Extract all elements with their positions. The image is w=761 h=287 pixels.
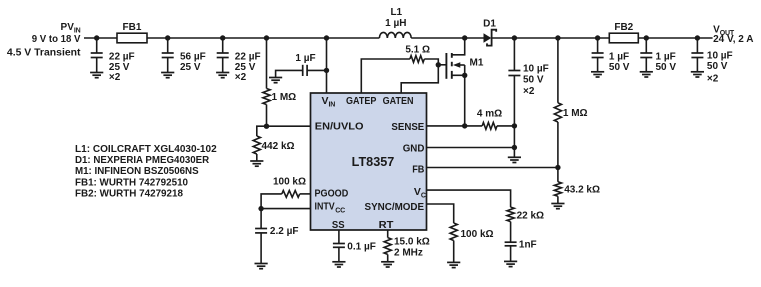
svg-text:EN/UVLO: EN/UVLO [315, 121, 364, 133]
pin FB label [412, 164, 425, 176]
node junction input cap 1 [94, 35, 99, 40]
pin GATEN label [383, 95, 414, 107]
svg-text:FB: FB [412, 164, 425, 176]
resistor R4 4mohm sense [482, 123, 514, 130]
label C3 22uF 25V x2 [235, 51, 261, 82]
wire GATEP riser [361, 59, 410, 93]
svg-text:100 kΩ: 100 kΩ [461, 229, 494, 240]
svg-text:442 kΩ: 442 kΩ [262, 141, 295, 152]
svg-text:10 µF: 10 µF [523, 63, 549, 74]
label R10 22k [517, 211, 544, 222]
svg-text:INTV: INTV [315, 200, 335, 212]
svg-text:50 V: 50 V [523, 75, 544, 86]
ground C9 [255, 264, 268, 269]
svg-text:D1: NEXPERIA PMEG4030ER: D1: NEXPERIA PMEG4030ER [75, 155, 210, 166]
label C8 10uF 50V x2 [707, 50, 733, 84]
wire gate junction to gate [438, 64, 445, 66]
wire EN node to 442k [257, 126, 267, 136]
pin RT label [379, 219, 394, 231]
pin VC label [414, 186, 426, 200]
ground GND pin [508, 157, 521, 162]
capacitor C5 10uF x2 [508, 38, 520, 157]
capacitor C10 0.1uF SS [333, 230, 345, 262]
node junction 1M divider top [264, 35, 269, 40]
svg-text:GATEN: GATEN [383, 95, 414, 107]
capacitor C1 22uF [91, 38, 103, 73]
pin SENSE label [391, 121, 424, 133]
label C9 2.2uF [270, 226, 299, 237]
pin GND label [403, 142, 425, 154]
node junction input cap 3 [220, 35, 225, 40]
svg-text:1 µH: 1 µH [385, 18, 406, 29]
label M1 [470, 58, 484, 69]
svg-text:4 mΩ: 4 mΩ [477, 109, 502, 120]
svg-text:FB2: FB2 [614, 22, 633, 33]
svg-text:1 MΩ: 1 MΩ [563, 108, 588, 119]
svg-text:1 MΩ: 1 MΩ [272, 92, 297, 103]
svg-text:×2: ×2 [523, 86, 535, 97]
node junction output cap 2 [644, 35, 649, 40]
resistor R9 100k SYNC [450, 223, 457, 262]
capacitor C11 1nF VC [505, 242, 517, 261]
svg-text:PGOOD: PGOOD [315, 187, 349, 199]
wire FB1 to inductor L1 [147, 37, 379, 39]
svg-text:SYNC/MODE: SYNC/MODE [365, 201, 425, 213]
svg-text:56 µF: 56 µF [180, 51, 206, 62]
svg-text:100 kΩ: 100 kΩ [273, 177, 306, 188]
resistor R5 1M output divider [554, 38, 561, 168]
resistor R3 5.1R gate [410, 56, 438, 65]
node EN junction [264, 124, 269, 129]
wire bypass cap to VIN [307, 69, 326, 71]
ground C1 [90, 73, 103, 78]
svg-text:9 V to 18 V: 9 V to 18 V [32, 34, 81, 45]
svg-text:GND: GND [403, 142, 425, 154]
transistor M1 NMOS [446, 38, 464, 126]
wire SENSE pin [427, 125, 483, 127]
label C1 22uF 25V x2 [109, 51, 135, 82]
node junction VIN drop [324, 35, 329, 40]
label C4 1uF [295, 53, 315, 64]
label R3 5.1R [405, 44, 430, 55]
pin VIN label [322, 95, 336, 109]
wire SYNC/MODE pin [427, 204, 454, 223]
label C5 10uF 50V x2 [523, 63, 549, 97]
label D1 [483, 19, 496, 30]
label R7 100k [273, 177, 306, 188]
pin PGOOD label [315, 187, 349, 199]
capacitor C6 1uF [592, 38, 604, 72]
ground R2 [250, 161, 263, 166]
svg-text:SS: SS [332, 219, 345, 231]
wire PGOOD pin [300, 193, 311, 195]
svg-text:×2: ×2 [707, 74, 719, 85]
label U1 LT8357 [352, 155, 395, 169]
label R8 15k 2MHz [394, 236, 430, 258]
svg-text:L1: COILCRAFT XGL4030-102: L1: COILCRAFT XGL4030-102 [75, 144, 217, 155]
node GND junction [512, 145, 517, 150]
svg-text:FB1: FB1 [123, 22, 142, 33]
label C6 1uF 50V [609, 51, 630, 73]
wire L1 to D1 [411, 37, 483, 39]
node junction output divider [555, 35, 560, 40]
svg-text:43.2 kΩ: 43.2 kΩ [564, 185, 600, 196]
svg-text:PVIN: PVIN [61, 22, 81, 34]
svg-text:2.2 µF: 2.2 µF [270, 226, 299, 237]
svg-text:SENSE: SENSE [391, 121, 424, 133]
node PVIN input terminal labels [7, 22, 81, 59]
svg-text:M1: INFINEON BSZ0506NS: M1: INFINEON BSZ0506NS [75, 166, 199, 177]
ground R6 [551, 204, 564, 209]
capacitor C3 22uF [217, 38, 229, 73]
node FB junction [555, 165, 560, 170]
wire input rail PVIN to FB1 [84, 37, 117, 39]
wire EN node to EN/UVLO pin [267, 125, 311, 127]
svg-text:1 µF: 1 µF [656, 51, 676, 62]
svg-text:1nF: 1nF [519, 240, 537, 251]
label R5 1M [563, 108, 588, 119]
svg-text:25 V: 25 V [180, 62, 201, 73]
svg-text:50 V: 50 V [609, 62, 630, 73]
ground C3 [216, 73, 229, 78]
label R9 100k [461, 229, 494, 240]
ferrite bead FB1 [117, 22, 147, 43]
pin SS label [332, 219, 345, 231]
svg-text:GATEP: GATEP [346, 95, 376, 107]
svg-text:4.5 V Transient: 4.5 V Transient [7, 48, 81, 59]
label R1 1M [272, 92, 297, 103]
wire bypass cap to ground [276, 70, 303, 77]
label C11 1nF [519, 240, 537, 251]
ground R9 [447, 262, 460, 267]
svg-text:D1: D1 [483, 19, 496, 30]
inductor L1 [379, 32, 411, 38]
svg-text:24 V, 2 A: 24 V, 2 A [713, 34, 753, 45]
svg-text:15.0 kΩ: 15.0 kΩ [394, 236, 430, 247]
capacitor C7 1uF [640, 38, 652, 72]
ground C8 [691, 72, 704, 77]
svg-text:2 MHz: 2 MHz [394, 248, 423, 259]
resistor R1 1M EN divider [263, 38, 270, 126]
pin EN/UVLO label [315, 121, 364, 133]
svg-text:1 µF: 1 µF [609, 51, 629, 62]
svg-text:CC: CC [335, 208, 345, 215]
node junction output cap 3 [695, 35, 700, 40]
svg-text:×2: ×2 [109, 72, 121, 83]
label C2 56uF 25V [180, 51, 206, 73]
ferrite bead FB2 [609, 22, 638, 43]
svg-text:50 V: 50 V [656, 62, 677, 73]
svg-text:L1: L1 [390, 7, 402, 18]
label BOM parts list [75, 144, 217, 200]
svg-text:10 µF: 10 µF [707, 50, 733, 61]
node junction output cap 1 [595, 35, 600, 40]
node sense gnd junction [512, 123, 517, 128]
svg-text:5.1 Ω: 5.1 Ω [405, 44, 430, 55]
ground C2 [161, 73, 174, 78]
ground R8 [381, 262, 394, 267]
resistor R7 100k PGOOD pullup [261, 191, 300, 209]
pin INTVCC label [315, 200, 346, 214]
wire GND pin [427, 147, 515, 149]
node gate junction [436, 62, 441, 67]
node VIN bypass junction [324, 68, 329, 73]
wire VC pin [427, 190, 511, 207]
capacitor C9 2.2uF INTVCC [255, 209, 267, 264]
svg-text:×2: ×2 [235, 72, 247, 83]
svg-text:22 µF: 22 µF [235, 51, 261, 62]
label C7 1uF 50V [656, 51, 677, 73]
resistor R2 442k [253, 136, 260, 161]
wire D1 to output rail [492, 37, 713, 39]
diode D1 schottky [484, 30, 497, 46]
resistor R8 15k RT [384, 230, 391, 262]
resistor R6 43.2k [554, 168, 561, 204]
label L1 1uH [385, 7, 406, 29]
label R6 43.2k [564, 185, 600, 196]
label R2 442k [262, 141, 295, 152]
svg-text:50 V: 50 V [707, 61, 728, 72]
ground C10 [332, 262, 345, 267]
node switch node junction [462, 35, 467, 40]
node M1 source junction [462, 73, 467, 78]
svg-text:RT: RT [379, 219, 394, 231]
resistor R10 22k VC [507, 207, 514, 242]
svg-text:22 µF: 22 µF [109, 51, 135, 62]
svg-text:M1: M1 [470, 58, 484, 69]
capacitor C2 56uF [162, 38, 174, 73]
node junction input cap 2 [165, 35, 170, 40]
ground C11 [504, 261, 517, 266]
svg-text:0.1 µF: 0.1 µF [347, 242, 376, 253]
ground C7 [640, 72, 653, 77]
wire FB pin [427, 167, 558, 169]
op-amp U1 LT8357 body [311, 93, 427, 230]
wire INTVCC pin [261, 208, 310, 210]
svg-text:FB2: WURTH 74279218: FB2: WURTH 74279218 [75, 189, 183, 200]
ground C4 [269, 78, 282, 83]
label R4 4mohm [477, 109, 502, 120]
wire GATEN riser [401, 65, 438, 93]
pin GATEP label [346, 95, 376, 107]
node VOUT terminal labels [713, 25, 753, 45]
pin SYNC/MODE label [365, 201, 425, 213]
label C10 0.1uF [347, 242, 376, 253]
svg-text:22 kΩ: 22 kΩ [517, 211, 544, 222]
capacitor C4 1uF VIN bypass [303, 65, 307, 76]
node output junction [512, 35, 517, 40]
wire VIN pin stub [326, 38, 328, 93]
svg-text:1 µF: 1 µF [295, 53, 315, 64]
node sense junction [462, 123, 467, 128]
svg-text:FB1: WURTH 742792510: FB1: WURTH 742792510 [75, 178, 188, 189]
svg-text:LT8357: LT8357 [352, 155, 395, 169]
ground C6 [591, 72, 604, 77]
node INTVCC junction [258, 206, 263, 211]
capacitor C8 10uF x2 [691, 38, 703, 72]
